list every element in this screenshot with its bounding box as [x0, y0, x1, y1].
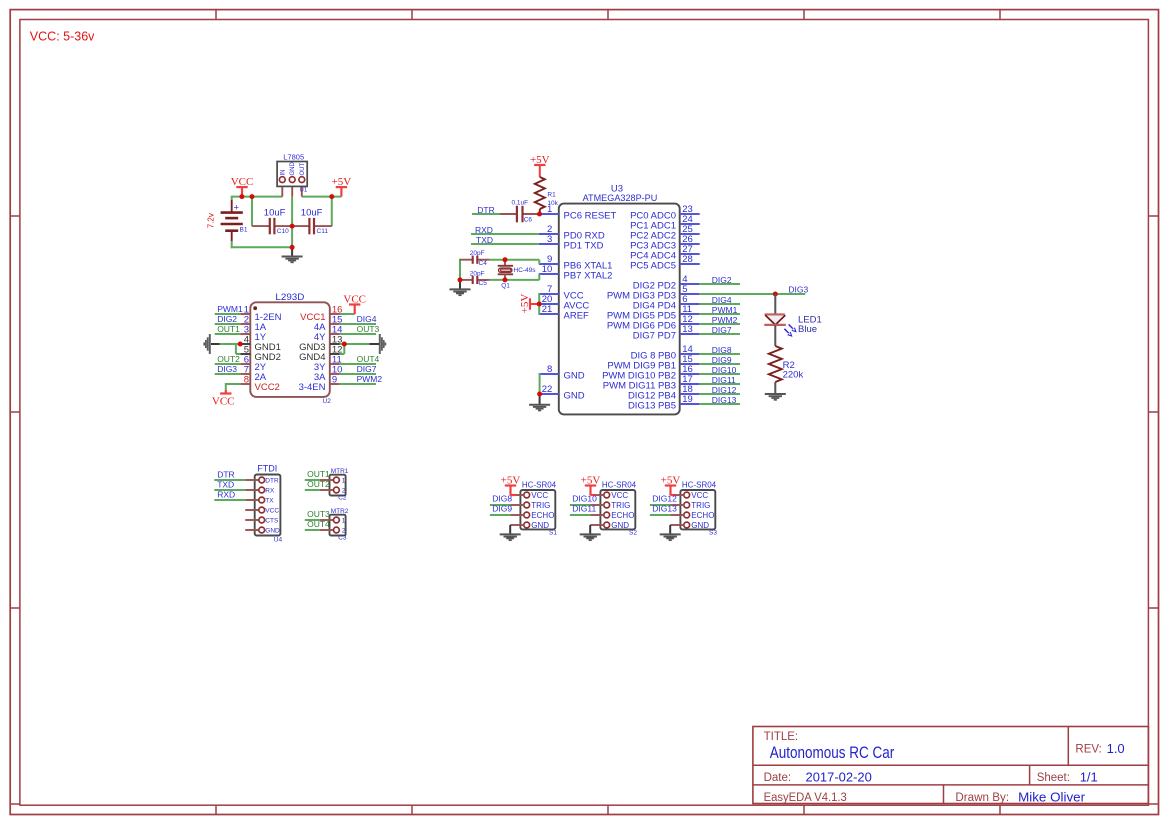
svg-text:L293D: L293D — [275, 292, 304, 303]
capacitor C11 — [292, 225, 309, 227]
svg-text:28: 28 — [682, 254, 693, 265]
capacitor C10 — [252, 225, 270, 227]
svg-text:VCC: VCC — [212, 395, 235, 407]
svg-text:DIG10: DIG10 — [572, 494, 597, 504]
wire regulator top right — [302, 196, 342, 198]
svg-text:HC-SR04: HC-SR04 — [682, 481, 717, 490]
svg-text:3-4EN: 3-4EN — [299, 382, 326, 393]
svg-text:FTDI: FTDI — [257, 463, 277, 473]
svg-text:PC5 ADC5: PC5 ADC5 — [630, 261, 676, 272]
svg-text:VCC: VCC — [531, 491, 548, 500]
svg-text:3: 3 — [547, 234, 552, 245]
svg-text:2017-02-20: 2017-02-20 — [806, 769, 872, 784]
svg-text:DIG11: DIG11 — [572, 504, 596, 514]
U2 gnd left — [220, 343, 241, 345]
svg-text:TRIG: TRIG — [611, 501, 630, 510]
svg-text:Mike Oliver: Mike Oliver — [1018, 790, 1086, 805]
svg-text:HC-SR04: HC-SR04 — [602, 481, 637, 490]
svg-text:9: 9 — [332, 375, 337, 386]
sensor S1 HC-SR04 — [520, 490, 555, 529]
svg-text:GND: GND — [531, 521, 549, 530]
svg-text:RXD: RXD — [475, 225, 493, 235]
svg-text:OUT3: OUT3 — [357, 324, 380, 334]
svg-text:TRIG: TRIG — [531, 501, 550, 510]
svg-text:Date:: Date: — [764, 772, 792, 784]
svg-text:Sheet:: Sheet: — [1037, 772, 1070, 784]
svg-text:DIG4: DIG4 — [357, 314, 377, 324]
svg-text:S1: S1 — [549, 530, 557, 537]
svg-text:HC-49s: HC-49s — [514, 267, 537, 274]
svg-text:+5V: +5V — [501, 474, 521, 486]
svg-text:OUT4: OUT4 — [357, 354, 380, 364]
junction dots regulator — [239, 194, 244, 199]
svg-text:1: 1 — [342, 477, 346, 484]
battery B1 — [231, 200, 233, 213]
svg-text:DIG7: DIG7 — [712, 325, 732, 335]
svg-text:DIG3: DIG3 — [788, 284, 808, 294]
svg-text:OUT1: OUT1 — [217, 324, 240, 334]
wire C11 branch vertical — [331, 196, 333, 227]
svg-text:TXD: TXD — [476, 235, 493, 245]
svg-text:DIG11: DIG11 — [712, 375, 736, 385]
U3 right pins — [680, 213, 700, 215]
svg-text:OUT3: OUT3 — [307, 509, 330, 519]
svg-text:DIG12: DIG12 — [652, 494, 677, 504]
svg-text:C2: C2 — [338, 495, 347, 502]
svg-text:GND: GND — [691, 521, 709, 530]
svg-text:DIG9: DIG9 — [712, 355, 732, 365]
wire battery top stub — [231, 196, 233, 200]
ground (U3 GND pins) — [539, 373, 541, 394]
svg-text:C4: C4 — [479, 260, 488, 267]
U4 wires — [214, 479, 245, 481]
svg-text:C11: C11 — [317, 228, 329, 235]
svg-text:EasyEDA V4.1.3: EasyEDA V4.1.3 — [764, 792, 847, 804]
svg-text:DTR: DTR — [265, 477, 279, 484]
svg-text:U4: U4 — [274, 536, 283, 543]
svg-text:GND: GND — [564, 391, 585, 402]
ground (crystal) — [459, 280, 461, 290]
svg-text:VCC: VCC — [231, 176, 254, 188]
svg-text:Drawn By:: Drawn By: — [955, 792, 1009, 804]
svg-text:+5V: +5V — [519, 294, 531, 314]
IC U2 L293D box — [250, 302, 329, 397]
svg-text:ECHO: ECHO — [691, 511, 714, 520]
svg-text:DIG7 PD7: DIG7 PD7 — [633, 331, 676, 342]
svg-text:CTS: CTS — [265, 517, 279, 524]
svg-text:GND: GND — [265, 527, 280, 534]
svg-text:OUT4: OUT4 — [307, 519, 330, 529]
svg-text:22: 22 — [542, 384, 553, 395]
connector C2 MTR1 — [330, 475, 346, 496]
wire regulator top left — [232, 196, 283, 198]
svg-text:DIG4: DIG4 — [712, 295, 732, 305]
svg-text:21: 21 — [542, 304, 553, 315]
svg-text:C10: C10 — [277, 228, 289, 235]
LED1 — [774, 294, 776, 315]
svg-text:8: 8 — [547, 364, 552, 375]
svg-text:DIG9: DIG9 — [492, 504, 512, 514]
U2 pin8 VCC flag — [226, 383, 241, 385]
svg-text:220k: 220k — [783, 369, 804, 380]
svg-text:MTR1: MTR1 — [331, 468, 349, 475]
svg-text:VCC: VCC — [343, 293, 366, 305]
svg-text:L7805: L7805 — [283, 152, 304, 161]
svg-text:+5V: +5V — [581, 474, 601, 486]
svg-text:DIG7: DIG7 — [357, 364, 377, 374]
svg-text:ECHO: ECHO — [611, 511, 634, 520]
svg-text:PC6 RESET: PC6 RESET — [564, 211, 617, 222]
svg-text:DIG13: DIG13 — [652, 504, 677, 514]
capacitor C4 — [460, 259, 473, 261]
svg-text:PWM1: PWM1 — [217, 304, 243, 314]
svg-text:7.2v: 7.2v — [207, 213, 216, 228]
svg-text:VCC2: VCC2 — [255, 382, 280, 393]
svg-text:R1: R1 — [547, 192, 556, 199]
svg-text:TXD: TXD — [217, 480, 234, 490]
svg-text:Autonomous RC Car: Autonomous RC Car — [770, 744, 895, 762]
svg-text:+5V: +5V — [661, 474, 681, 486]
svg-text:DIG2: DIG2 — [712, 275, 732, 285]
svg-text:VCC: 5-36v: VCC: 5-36v — [30, 29, 95, 43]
svg-text:OUT2: OUT2 — [217, 354, 240, 364]
svg-text:OUT2: OUT2 — [307, 479, 330, 489]
U3 left pins — [539, 213, 559, 215]
svg-text:DIG2: DIG2 — [217, 314, 237, 324]
svg-text:20pF: 20pF — [470, 250, 485, 257]
ground (regulator) — [291, 247, 293, 256]
svg-text:TRIG: TRIG — [691, 501, 710, 510]
svg-text:AREF: AREF — [564, 311, 590, 322]
svg-text:VCC: VCC — [265, 507, 279, 514]
power flag +5V (regulator out) — [340, 187, 342, 197]
resistor R2 — [769, 346, 782, 382]
title block — [753, 727, 1149, 804]
net RXD wire — [471, 233, 539, 235]
svg-text:S3: S3 — [709, 530, 717, 537]
svg-text:C6: C6 — [524, 217, 533, 224]
svg-text:DTR: DTR — [217, 470, 234, 480]
svg-text:DIG13 PB5: DIG13 PB5 — [628, 401, 676, 412]
svg-text:1: 1 — [342, 517, 346, 524]
svg-text:2: 2 — [342, 527, 346, 534]
U2 gnd right — [340, 343, 370, 345]
svg-text:10uF: 10uF — [264, 207, 286, 218]
svg-text:GND: GND — [564, 371, 585, 382]
svg-text:0.1uF: 0.1uF — [512, 200, 529, 207]
power flag VCC (battery) — [241, 187, 243, 197]
svg-text:HC-SR04: HC-SR04 — [522, 481, 557, 490]
sensor S2 HC-SR04 — [600, 490, 635, 529]
U3 right net wires — [700, 283, 740, 285]
svg-text:MTR2: MTR2 — [331, 508, 349, 515]
connector C3 MTR2 — [330, 515, 346, 536]
svg-text:DTR: DTR — [477, 205, 494, 215]
svg-text:2: 2 — [342, 487, 346, 494]
svg-text:VCC: VCC — [611, 491, 628, 500]
svg-text:8: 8 — [244, 375, 249, 386]
svg-text:U2: U2 — [323, 398, 332, 405]
svg-text:+5V: +5V — [530, 154, 550, 166]
U2 left wires and labels — [215, 313, 241, 315]
U2 right wires and labels — [340, 323, 376, 325]
svg-text:13: 13 — [682, 324, 693, 335]
net DTR wire — [472, 213, 500, 215]
svg-text:IN: IN — [280, 170, 286, 176]
net DIG3 wire — [700, 293, 806, 295]
svg-text:RX: RX — [265, 487, 275, 494]
svg-text:PWM2: PWM2 — [712, 315, 738, 325]
svg-text:DIG13: DIG13 — [712, 395, 737, 405]
capacitor C6 — [500, 213, 517, 215]
svg-text:OUT1: OUT1 — [307, 469, 330, 479]
svg-text:1.0: 1.0 — [1107, 741, 1125, 756]
+5V flag (VCC/AVCC/AREF) — [538, 293, 540, 315]
svg-text:ECHO: ECHO — [531, 511, 554, 520]
svg-text:PD1 TXD: PD1 TXD — [564, 241, 604, 252]
wire C10 branch vertical — [251, 196, 253, 227]
frame ticks — [215, 10, 217, 20]
connector U4 FTDI — [255, 475, 281, 536]
svg-text:+: + — [234, 203, 240, 214]
svg-text:TX: TX — [265, 497, 274, 504]
svg-text:GND: GND — [611, 521, 629, 530]
crystal circuit wires — [490, 259, 540, 261]
svg-text:10k: 10k — [547, 200, 558, 207]
svg-text:PWM2: PWM2 — [357, 374, 383, 384]
svg-text:20pF: 20pF — [470, 270, 485, 277]
sensor S3 HC-SR04 — [680, 490, 715, 529]
svg-text:Blue: Blue — [798, 324, 817, 335]
svg-text:C3: C3 — [338, 535, 347, 542]
IC U3 ATMEGA328P-PU box — [559, 204, 680, 415]
svg-text:GND: GND — [290, 162, 296, 176]
U2 pin16 VCC flag — [340, 313, 355, 315]
svg-text:1/1: 1/1 — [1080, 769, 1098, 784]
resistor R1 — [539, 165, 541, 177]
svg-text:DIG10: DIG10 — [712, 365, 737, 375]
svg-text:OUT: OUT — [300, 163, 306, 176]
svg-text:REV:: REV: — [1075, 744, 1101, 756]
svg-text:TITLE:: TITLE: — [764, 731, 799, 743]
svg-text:S2: S2 — [629, 530, 637, 537]
svg-text:10: 10 — [542, 264, 553, 275]
svg-text:RXD: RXD — [217, 490, 235, 500]
power flag +5V (R1) — [534, 164, 545, 166]
svg-text:DIG12: DIG12 — [712, 385, 737, 395]
svg-text:ATMEGA328P-PU: ATMEGA328P-PU — [583, 193, 658, 204]
ground (R2) — [765, 393, 786, 395]
wire regulator gnd vertical — [291, 197, 293, 248]
regulator U1 L7805 — [281, 183, 283, 197]
svg-text:PWM1: PWM1 — [712, 305, 738, 315]
svg-text:DIG8: DIG8 — [492, 494, 512, 504]
svg-text:C5: C5 — [479, 280, 488, 287]
U2 pins — [240, 313, 250, 315]
crystal Q1 HC-49s — [504, 260, 506, 266]
svg-text:19: 19 — [682, 394, 693, 405]
net TXD wire — [471, 243, 539, 245]
svg-text:B1: B1 — [240, 227, 248, 234]
svg-text:Q1: Q1 — [501, 282, 510, 289]
svg-text:PB7 XTAL2: PB7 XTAL2 — [564, 271, 613, 282]
svg-text:DIG8: DIG8 — [712, 345, 732, 355]
capacitor C5 — [460, 279, 473, 281]
svg-text:10uF: 10uF — [301, 207, 323, 218]
svg-text:VCC: VCC — [691, 491, 708, 500]
svg-text:DIG3: DIG3 — [217, 364, 237, 374]
svg-text:U1: U1 — [300, 187, 308, 193]
wire battery bottom — [231, 241, 233, 248]
svg-text:+5V: +5V — [332, 176, 352, 188]
